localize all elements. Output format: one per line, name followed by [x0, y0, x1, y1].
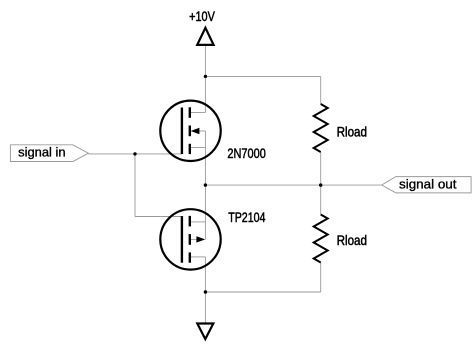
wire: Q1 source connect [190, 147, 206, 149]
node: input junction [133, 152, 136, 155]
wire: +10V symbol to top junction [204, 45, 206, 77]
svg-text:Rload: Rload [337, 125, 367, 140]
node: bottom junction [204, 290, 207, 293]
wire: down to Rload1 top [320, 76, 322, 104]
svg-text:TP2104: TP2104 [228, 210, 266, 225]
transistor Q1 2N7000 (NMOS) [160, 101, 220, 161]
wire: Q1 source lead down to output node [204, 131, 206, 185]
svg-text:Rload: Rload [337, 233, 367, 248]
ground [197, 324, 213, 340]
net label: signal out flag [382, 177, 471, 193]
wire: top rail horizontal to Rload1 [205, 75, 320, 77]
wire: Rload2 bottom to bottom rail [320, 263, 322, 293]
svg-text:2N7000: 2N7000 [227, 146, 266, 161]
node: output junction right [319, 183, 322, 186]
node: output junction left [204, 183, 207, 186]
wire: Q1 body line [199, 130, 206, 132]
wire: signal in to Q1 gate [88, 153, 181, 155]
wire: output rail [205, 184, 381, 186]
wire: drain lead of Q1 [204, 76, 206, 112]
resistor Rload1 [314, 104, 328, 152]
wire: input node down [134, 154, 136, 217]
wire: Q2 source lead from output node [204, 185, 206, 239]
wire: Q2 drain lead down to ground [204, 257, 206, 324]
wire: to Q2 gate [135, 216, 182, 218]
wire: Q1 drain connect [190, 112, 206, 114]
transistor Q2 TP2104 (PMOS) [160, 209, 220, 269]
svg-text:signal out: signal out [399, 177, 457, 192]
net label: signal in flag [10, 145, 88, 162]
node: top junction [204, 75, 207, 78]
wire: Rload1 bottom to output rail [320, 152, 322, 215]
svg-text:signal in: signal in [18, 145, 66, 160]
wire: Q2 drain connect [190, 256, 206, 258]
resistor Rload2 [314, 215, 328, 263]
svg-text:+10V: +10V [189, 9, 215, 24]
wire: Q2 body line [190, 238, 198, 240]
wire: Q2 source connect [190, 221, 206, 223]
power symbol +10V [197, 28, 213, 45]
wire: bottom rail [205, 291, 320, 293]
